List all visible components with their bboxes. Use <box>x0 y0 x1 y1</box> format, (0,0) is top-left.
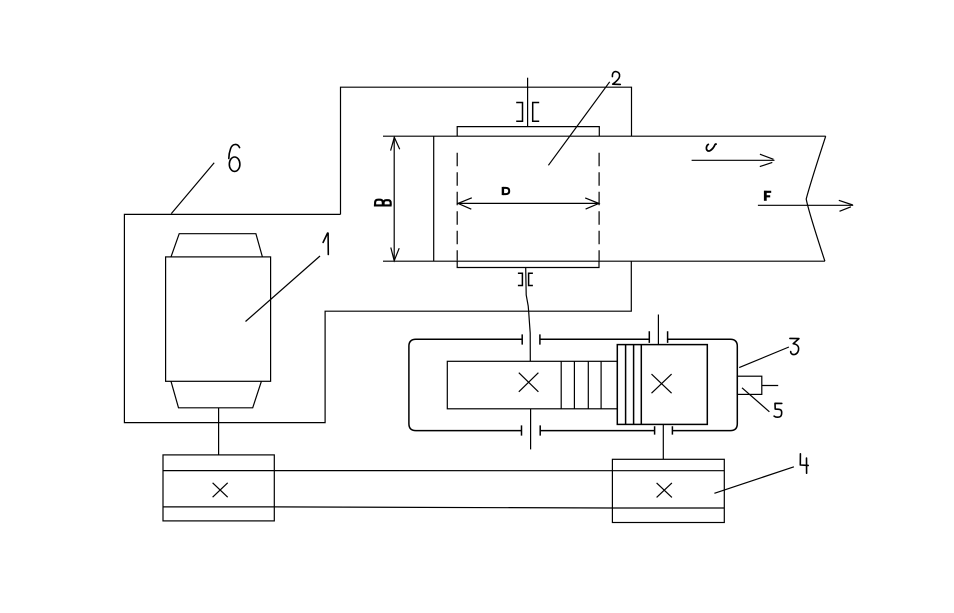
motor shaft <box>218 408 220 455</box>
belt lines between pulleys <box>274 471 612 508</box>
leader 2 <box>548 82 609 166</box>
label F <box>764 191 771 201</box>
frame 6 top box <box>341 87 632 214</box>
left pulley rim lines <box>163 471 274 507</box>
gearbox top bearing (wheel shaft) ticks <box>649 331 667 343</box>
belt left end <box>433 136 435 261</box>
dimension D arrowheads <box>458 198 472 209</box>
label 4 <box>800 454 808 473</box>
leader 6 <box>171 163 214 214</box>
motor bottom end-bell <box>171 381 261 408</box>
label 1 <box>323 233 328 255</box>
belt bottom line <box>383 260 825 262</box>
right pulley rim lines <box>612 471 724 508</box>
worm segments <box>561 361 601 409</box>
belt break line <box>806 136 826 261</box>
wheel shaft top stub <box>657 315 659 345</box>
leader 4 <box>714 467 794 494</box>
arrow v <box>692 159 775 161</box>
label B <box>374 200 392 206</box>
drum to gearbox shaft <box>526 268 531 362</box>
coupling output line <box>762 385 778 387</box>
dimension B line <box>393 137 395 261</box>
belt drive 4 left pulley <box>163 455 274 521</box>
drum 2 top cap <box>457 127 599 137</box>
gearbox top bearing (input shaft) ticks <box>522 334 540 344</box>
belt drive 4 right pulley <box>612 459 724 522</box>
drum top shaft stub <box>527 78 529 127</box>
leader 1 <box>246 256 321 322</box>
drum 2 bottom cap <box>457 261 599 267</box>
dimension D line <box>458 202 599 204</box>
X mark on wheel <box>652 374 672 393</box>
leader 3 <box>739 347 789 368</box>
label 3 <box>790 338 799 354</box>
X mark right pulley <box>657 483 672 498</box>
motor top end-bell <box>171 234 262 257</box>
drum bottom bearing <box>518 273 523 285</box>
gearbox 3 housing <box>409 339 737 430</box>
motor M rect <box>166 257 271 381</box>
gearbox bottom bearing (wheel shaft) ticks <box>655 426 673 434</box>
label 6 <box>229 144 240 171</box>
worm wheel hub lines <box>626 345 642 425</box>
X mark left pulley <box>213 483 228 497</box>
worm shaft body <box>447 361 617 409</box>
label D <box>503 187 509 195</box>
worm wheel block <box>617 345 707 425</box>
gearbox bottom bearing (input shaft) ticks <box>522 425 541 435</box>
belt top line <box>383 135 826 137</box>
label 2 <box>612 72 620 85</box>
drum 2 dashed side right <box>598 153 600 261</box>
X mark on worm shaft <box>519 373 539 392</box>
gearbox inner vertical shaft lower stub <box>530 409 532 450</box>
wheel shaft to pulley <box>662 424 664 459</box>
drum top bearing <box>516 103 522 122</box>
arrow F <box>758 204 853 206</box>
frame 6 outline <box>124 214 631 422</box>
coupling 5 <box>737 376 762 394</box>
label v <box>706 144 716 151</box>
label 5 <box>774 403 782 417</box>
dimension B arrowheads <box>391 137 400 150</box>
leader 5 <box>742 388 769 412</box>
drum 2 dashed side left <box>456 153 458 261</box>
